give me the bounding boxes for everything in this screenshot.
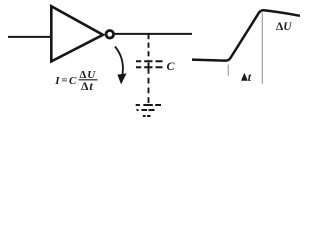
formula I = C dU/dt xyxy=(54,69,97,93)
svg-text:I: I xyxy=(54,75,60,87)
svg-text:t: t xyxy=(248,70,252,84)
capacitor lead (lower, dashed, to ground) xyxy=(148,68,150,103)
current arrow I (curved, pointing down) xyxy=(115,47,127,85)
svg-text:C: C xyxy=(69,75,77,87)
svg-text:Δt: Δt xyxy=(81,79,93,93)
label dt (transition time) xyxy=(242,70,252,84)
inverter U1 (triangle) xyxy=(51,6,103,61)
marker line t1 (thin, at start of ramp) xyxy=(227,65,229,77)
output wire xyxy=(115,33,192,35)
marker line t2 (thin, at end of ramp) xyxy=(261,13,263,85)
svg-text:ΔU: ΔU xyxy=(276,21,292,33)
capacitor C plates (dashed) xyxy=(136,61,163,67)
svg-text:=: = xyxy=(61,75,67,87)
capacitor lead dash between plates xyxy=(148,63,150,68)
input wire xyxy=(8,36,51,38)
svg-text:C: C xyxy=(167,59,176,73)
waveform: output voltage ramp (low, rising edge, high) xyxy=(192,10,300,60)
ground (dashed) xyxy=(136,105,161,116)
capacitor C lead (dashed wire from output node to plates and to ground) xyxy=(148,34,150,60)
inversion bubble xyxy=(106,31,114,39)
